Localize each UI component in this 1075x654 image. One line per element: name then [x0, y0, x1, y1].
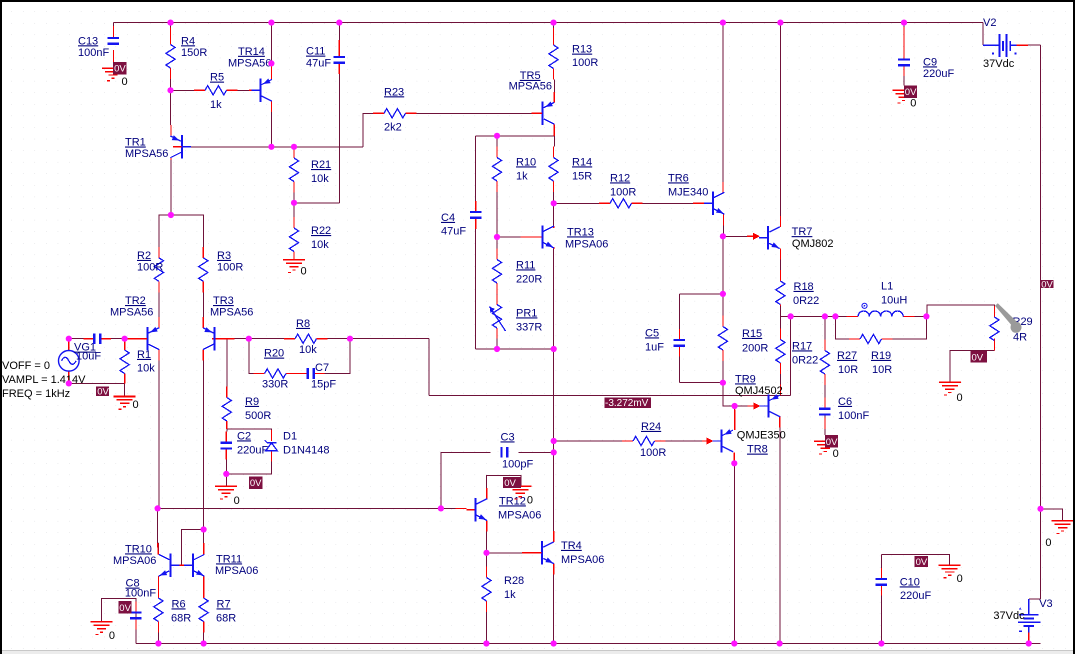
wire R18 bottom to output rail — [779, 305, 781, 317]
svg-text:0V: 0V — [119, 603, 131, 614]
wire R9 bottom to C2 loop — [226, 429, 228, 432]
wire C8 corner — [102, 599, 136, 644]
wire TR7 emitter to R18 — [779, 260, 781, 270]
wire feedback riser x791 — [790, 316, 792, 395]
wire R4 column — [170, 23, 172, 34]
preset PR1 337R — [492, 305, 501, 329]
transistor TR9 QMJ4502 — [768, 394, 770, 417]
svg-text:L1: L1 — [881, 280, 893, 292]
svg-text:10k: 10k — [311, 173, 329, 185]
capacitor C9 — [898, 58, 910, 60]
svg-text:0: 0 — [957, 392, 963, 404]
capacitor C5 — [674, 339, 686, 341]
resistor R10 — [492, 158, 501, 182]
diode D1 D1N4148 — [266, 443, 277, 451]
wire TR1 base net y147 — [182, 146, 363, 148]
svg-text:V2: V2 — [983, 17, 996, 29]
wire C2 bottom — [225, 459, 227, 474]
wire R10 upper stub — [496, 136, 498, 147]
wire x723 down to C5 top node — [722, 236, 724, 294]
resistor R13 — [549, 45, 558, 69]
capacitor C10 — [876, 578, 888, 580]
wire R17 top stub — [779, 316, 781, 328]
wire R7 bottom — [203, 633, 205, 644]
svg-text:0: 0 — [109, 630, 115, 642]
wire TR11 emitter to R7 — [203, 587, 205, 598]
svg-text:0: 0 — [301, 266, 307, 278]
wire main column y441-y452 — [553, 441, 555, 452]
wire PR1 bottom — [496, 339, 498, 349]
svg-text:0R22: 0R22 — [792, 354, 818, 366]
resistor R28 — [482, 578, 491, 602]
svg-text:1k: 1k — [504, 589, 516, 601]
svg-text:1k: 1k — [516, 170, 528, 182]
svg-text:MPSA06: MPSA06 — [565, 238, 608, 250]
svg-text:R12: R12 — [610, 172, 630, 184]
svg-text:MPSA56: MPSA56 — [110, 307, 153, 319]
svg-text:R10: R10 — [516, 156, 536, 168]
svg-text:R11: R11 — [516, 259, 535, 271]
wire TR9 base feed — [723, 383, 735, 406]
wire TR14 collector to node — [270, 112, 272, 147]
svg-text:1k: 1k — [210, 99, 222, 111]
ground R29 output — [971, 351, 988, 362]
pin stubs red — [112, 26, 114, 38]
wire R22 top — [293, 203, 295, 217]
wire y349 link — [476, 348, 554, 350]
transistor TR12 MPSA06 — [474, 498, 476, 521]
svg-text:0V: 0V — [826, 437, 838, 448]
svg-text:R9: R9 — [245, 396, 259, 408]
wire C10 stub — [880, 554, 882, 568]
svg-text:150R: 150R — [181, 47, 207, 59]
capacitor C8 — [130, 611, 142, 613]
wire x723 V+ drop to TR6 — [722, 23, 724, 182]
wire R5 net — [171, 89, 195, 91]
red current arrow TR9 base — [754, 403, 761, 410]
resistor R20 — [265, 369, 287, 378]
wire R15 bottom to node — [722, 361, 724, 383]
svg-text:TR3: TR3 — [213, 295, 234, 307]
wire R19 loop — [835, 316, 849, 339]
wire C4 column lower — [475, 229, 477, 349]
svg-text:220uF: 220uF — [237, 444, 268, 456]
wire TR6 emitter to node — [722, 225, 724, 236]
battery V3 37Vdc — [1028, 599, 1030, 615]
wire C1 to TR2 base — [125, 338, 139, 340]
wire TR12 emitter down — [486, 531, 488, 552]
svg-text:0V: 0V — [114, 64, 126, 75]
wire R10 to TR13 base node — [496, 192, 498, 237]
ground C10 with probe — [915, 556, 928, 567]
wire R3 to TR3 emitter — [202, 292, 204, 317]
wire C11 column — [338, 23, 340, 46]
wire C5 top rail — [679, 293, 723, 295]
svg-text:10uF: 10uF — [76, 350, 101, 362]
svg-text:C6: C6 — [838, 396, 852, 408]
svg-text:337R: 337R — [516, 321, 542, 333]
wire x780 V+ drop to TR7 — [779, 23, 781, 217]
wire ground tap right — [1041, 509, 1063, 520]
resistor R4 — [166, 45, 175, 69]
svg-text:0: 0 — [527, 494, 533, 506]
svg-text:R27: R27 — [837, 350, 857, 362]
wire bottom V- rail — [136, 643, 1041, 645]
svg-text:C4: C4 — [441, 212, 455, 224]
ground R22 — [283, 259, 305, 261]
wire feedback drop x429 — [428, 339, 430, 396]
svg-text:220uF: 220uF — [923, 68, 954, 80]
svg-text:68R: 68R — [171, 612, 191, 624]
svg-text:TR11: TR11 — [216, 553, 242, 565]
ground C13 with probe — [102, 67, 124, 69]
wire R12 net — [554, 202, 599, 204]
ground TR12 with probe — [509, 485, 531, 487]
ground C2 with probe — [215, 485, 237, 487]
wire TR4 emitter drop — [553, 575, 555, 644]
svg-text:0R22: 0R22 — [793, 295, 819, 307]
resistor R1 — [120, 350, 129, 374]
svg-text:R8: R8 — [296, 318, 310, 330]
wire C8 stub — [135, 599, 137, 602]
svg-text:R2: R2 — [137, 250, 151, 262]
svg-text:R18: R18 — [794, 281, 814, 293]
transistor TR1 MPSA56 — [181, 135, 183, 158]
resistor R29 with cursor — [990, 317, 999, 341]
svg-text:100nF: 100nF — [125, 587, 156, 599]
wire TR13 base — [497, 236, 520, 238]
wire TR3 collector down to TR11 node — [202, 360, 204, 529]
transistor TR7 QMJ802 — [767, 226, 769, 249]
probe 0V right rail — [1040, 280, 1053, 288]
svg-text:0V: 0V — [97, 387, 109, 398]
svg-text:47uF: 47uF — [441, 225, 466, 237]
red base-base wire TR10 TR11 — [170, 564, 193, 566]
svg-text:47uF: 47uF — [306, 57, 331, 69]
wire V3 battery stub — [1028, 598, 1030, 600]
wire C11 to R21/R22 node — [294, 202, 339, 204]
svg-text:R21: R21 — [311, 159, 331, 171]
ground C6 with probe — [814, 440, 836, 442]
resistor R2 — [154, 258, 163, 282]
wire L1 segment — [835, 315, 846, 317]
svg-text:R1: R1 — [137, 349, 151, 361]
wire TR1 emitter from R4/R5 node — [170, 90, 172, 125]
wire output riser to R29 — [926, 305, 994, 316]
transistor TR4 MPSA06 — [541, 541, 543, 564]
svg-text:100R: 100R — [640, 447, 666, 459]
wire TR11/TR10 base feed — [182, 530, 204, 566]
svg-text:MJE340: MJE340 — [668, 186, 708, 198]
svg-text:220uF: 220uF — [900, 590, 931, 602]
ground C9 with probe — [892, 89, 914, 91]
transistor TR2 MPSA56 — [147, 327, 149, 350]
svg-text:0V: 0V — [250, 478, 262, 489]
resistor R19 — [860, 334, 882, 343]
wire R24 net — [554, 440, 622, 442]
wire C6 to ground cluster — [824, 414, 826, 417]
svg-text:TR14: TR14 — [238, 46, 265, 58]
wire R17 bottom to TR9 emitter — [779, 374, 781, 385]
transistor TR8 QMJE350 — [721, 429, 723, 452]
resistor R24 — [633, 436, 655, 445]
wire TR12 emitter to TR4 base — [487, 552, 523, 554]
svg-text:TR9: TR9 — [735, 373, 756, 385]
wire main column to TR4 collector — [553, 452, 555, 542]
svg-text:10R: 10R — [838, 364, 858, 376]
svg-text:R5: R5 — [210, 72, 224, 84]
resistor R18 — [776, 281, 785, 305]
resistor R3 — [199, 258, 208, 282]
svg-text:-3.272mV: -3.272mV — [605, 398, 649, 409]
junction dots — [167, 20, 173, 26]
mouse cursor — [995, 303, 1018, 327]
ground C8 with probe — [118, 601, 131, 614]
resistor R21 — [289, 158, 298, 182]
wire TR13 emitter drop — [553, 249, 555, 349]
svg-text:0V: 0V — [972, 352, 984, 363]
svg-text:VOFF = 0: VOFF = 0 — [2, 360, 50, 372]
svg-text:10k: 10k — [311, 239, 329, 251]
svg-text:C7: C7 — [315, 362, 329, 374]
wire TR5 collector drop to R14 — [553, 136, 555, 147]
resistor R15 — [718, 327, 727, 351]
capacitor C11 — [334, 56, 346, 58]
transistor TR11 MPSA06 — [192, 554, 194, 577]
wire R6 bottom — [157, 633, 159, 644]
wire R28 column — [486, 553, 488, 567]
wire y136 link — [476, 135, 555, 137]
resistor R5 — [205, 86, 227, 95]
svg-text:500R: 500R — [245, 410, 271, 422]
svg-text:V3: V3 — [1039, 598, 1052, 610]
wire R29 bottom to ground — [950, 350, 995, 382]
wire C9 column — [903, 23, 905, 49]
wire TR9 collector drop to rail — [779, 428, 781, 644]
wire R27 to C6 — [824, 385, 826, 398]
wire C5 left column — [678, 294, 680, 329]
resistor R6 — [154, 598, 163, 622]
svg-text:15pF: 15pF — [311, 378, 336, 390]
svg-text:TR7: TR7 — [792, 226, 813, 238]
svg-text:10k: 10k — [299, 344, 317, 356]
svg-text:TR6: TR6 — [668, 172, 689, 184]
wire V2 right to corner — [1028, 44, 1040, 46]
wire R14 bottom to node y203 — [553, 192, 555, 203]
wire C4 column upper — [475, 136, 477, 201]
svg-text:MPSA06: MPSA06 — [498, 509, 541, 521]
border frame — [0, 0, 1075, 2]
wire V1 bottom to ground corner — [69, 383, 125, 396]
svg-text:MPSA06: MPSA06 — [561, 554, 604, 566]
wire C5 bottom rail — [679, 382, 723, 384]
transistor TR3 MPSA56 — [214, 327, 216, 350]
capacitor C3 — [500, 447, 502, 458]
svg-text:C10: C10 — [900, 576, 920, 588]
svg-text:D1: D1 — [283, 430, 297, 442]
svg-text:R23: R23 — [384, 86, 404, 98]
transistor TR6 MJE340 — [712, 192, 714, 215]
svg-text:MPSA56: MPSA56 — [125, 148, 168, 160]
svg-text:0: 0 — [122, 76, 128, 88]
probe -3.272mV on feedback — [605, 397, 652, 408]
wire R11 to PR1 — [496, 293, 498, 296]
wire TR10 collector stub — [157, 508, 159, 543]
red current arrow TR7 base — [753, 233, 760, 240]
svg-text:2k2: 2k2 — [384, 121, 402, 133]
wire TR13 collector stub — [553, 203, 555, 226]
resistor R27 — [820, 351, 829, 375]
svg-text:0: 0 — [133, 399, 139, 411]
svg-text:PR1: PR1 — [516, 307, 537, 319]
wire TR14 emitter column — [270, 23, 272, 67]
svg-text:R28: R28 — [504, 575, 524, 587]
wire TR3 base net y339 — [224, 338, 284, 340]
red base pin overrides — [532, 112, 542, 114]
svg-text:37Vdc: 37Vdc — [983, 58, 1015, 70]
wire R2 to TR2 emitter — [158, 292, 160, 317]
svg-text:4R: 4R — [1013, 331, 1027, 343]
svg-text:MPSA56: MPSA56 — [228, 57, 271, 69]
resistor R22 — [289, 228, 298, 252]
wire main column y349-y441 — [553, 349, 555, 441]
capacitor C13 — [108, 37, 120, 39]
wire V3 jog — [1029, 598, 1041, 600]
svg-text:37Vdc: 37Vdc — [993, 610, 1025, 622]
capacitor C7 — [307, 368, 309, 379]
svg-text:TR8: TR8 — [747, 444, 768, 456]
svg-text:0: 0 — [1045, 537, 1051, 549]
svg-text:100nF: 100nF — [78, 47, 109, 59]
svg-text:C9: C9 — [923, 56, 937, 68]
wire R13 bottom to TR5 emitter — [553, 80, 555, 92]
svg-text:68R: 68R — [216, 612, 236, 624]
wire R9 tap — [226, 339, 228, 387]
wire mirror node to TR12 base run y508 — [158, 507, 455, 509]
ground V1 with probe — [96, 386, 109, 396]
svg-text:MPSA56: MPSA56 — [509, 81, 552, 93]
svg-text:MPSA56: MPSA56 — [210, 307, 253, 319]
svg-text:0V: 0V — [504, 478, 516, 489]
svg-text:C11: C11 — [306, 46, 325, 58]
svg-text:VAMPL = 1.414V: VAMPL = 1.414V — [2, 374, 86, 386]
svg-text:QMJE350: QMJE350 — [737, 429, 786, 441]
svg-text:R7: R7 — [217, 598, 231, 610]
ground right rail — [1052, 520, 1074, 522]
svg-text:1uF: 1uF — [645, 341, 664, 353]
svg-text:D1N4148: D1N4148 — [283, 444, 329, 456]
wire TR12 collector to ground — [487, 475, 521, 488]
svg-text:0: 0 — [910, 97, 916, 109]
svg-text:15R: 15R — [572, 170, 592, 182]
inductor L1 — [858, 311, 903, 316]
wire TR10 emitter to R6 — [157, 587, 159, 598]
svg-text:TR1: TR1 — [125, 137, 146, 149]
svg-text:100R: 100R — [572, 57, 598, 69]
wire R8 right to corner — [328, 338, 430, 340]
wire C3 right to main column — [518, 451, 553, 453]
svg-text:100R: 100R — [217, 262, 243, 274]
svg-text:330R: 330R — [262, 378, 288, 390]
svg-text:0V: 0V — [916, 557, 928, 568]
svg-text:R15: R15 — [742, 328, 762, 340]
svg-text:R17: R17 — [792, 340, 812, 352]
wire R11 top — [496, 237, 498, 249]
battery V2 37Vdc — [983, 44, 1000, 46]
svg-text:FREQ = 1kHz: FREQ = 1kHz — [2, 388, 70, 400]
svg-text:R3: R3 — [217, 250, 231, 262]
wire ground stem C2 node — [225, 474, 227, 487]
wire C13 drop — [112, 23, 114, 27]
wire TR1 collector down — [170, 158, 172, 215]
resistor R7 — [199, 598, 208, 622]
svg-text:C5: C5 — [645, 327, 659, 339]
red current arrow TR8 base — [707, 438, 714, 445]
capacitor C6 — [819, 407, 831, 409]
svg-text:QMJ4502: QMJ4502 — [735, 385, 783, 397]
wire C7 right riser — [325, 339, 350, 374]
svg-text:100R: 100R — [137, 262, 163, 274]
svg-text:R14: R14 — [572, 156, 592, 168]
svg-text:10uH: 10uH — [881, 294, 907, 306]
wire C3 left riser — [441, 452, 491, 508]
svg-text:R24: R24 — [641, 421, 661, 433]
wire riser to R23 — [363, 113, 373, 147]
capacitor C4 — [470, 211, 482, 213]
svg-text:100nF: 100nF — [838, 410, 869, 422]
wire output rail y316 — [780, 315, 846, 317]
wire V2 left lead down — [982, 23, 984, 46]
wire R15 top stub — [722, 294, 724, 316]
svg-text:10R: 10R — [872, 364, 892, 376]
wire TR6/TR7 base link — [723, 235, 747, 237]
resistor R11 — [492, 260, 501, 284]
wire R2/R3 split — [159, 215, 203, 247]
svg-text:TR4: TR4 — [561, 540, 582, 552]
wire D1 bottom to ground node — [226, 462, 271, 474]
svg-text:0: 0 — [833, 448, 839, 460]
transistor TR14 MPSA56 — [259, 79, 261, 102]
svg-text:C3: C3 — [501, 431, 515, 443]
resistor R17 — [776, 340, 785, 364]
svg-text:R6: R6 — [172, 598, 186, 610]
wire R21 column — [293, 146, 295, 148]
wire TR2 collector down to mirror node — [158, 360, 160, 508]
svg-text:R20: R20 — [264, 348, 284, 360]
svg-text:MPSA06: MPSA06 — [113, 555, 156, 567]
transistor TR5 MPSA56 — [542, 102, 544, 125]
svg-text:220R: 220R — [516, 273, 542, 285]
wire right V+ drop x1040 — [1040, 45, 1042, 599]
svg-text:0: 0 — [234, 495, 240, 507]
wire C2/D1 top link — [227, 429, 272, 430]
svg-text:C13: C13 — [78, 35, 98, 47]
transistor TR13 MPSA06 — [541, 225, 543, 248]
wire top V+ rail — [113, 22, 983, 24]
wire R27 top — [824, 316, 826, 339]
resistor R12 — [610, 199, 632, 208]
source V1 sine generator — [59, 351, 80, 372]
svg-text:QMJ802: QMJ802 — [792, 238, 834, 250]
svg-text:0: 0 — [957, 573, 963, 585]
wire TR11 collector stub — [203, 530, 205, 555]
svg-text:100R: 100R — [610, 186, 636, 198]
svg-text:R13: R13 — [572, 44, 592, 56]
wire TR9 base arrow segment — [735, 405, 748, 407]
transistor TR10 MPSA06 — [169, 554, 171, 577]
svg-text:R4: R4 — [181, 35, 195, 47]
capacitor C2 — [221, 441, 233, 443]
